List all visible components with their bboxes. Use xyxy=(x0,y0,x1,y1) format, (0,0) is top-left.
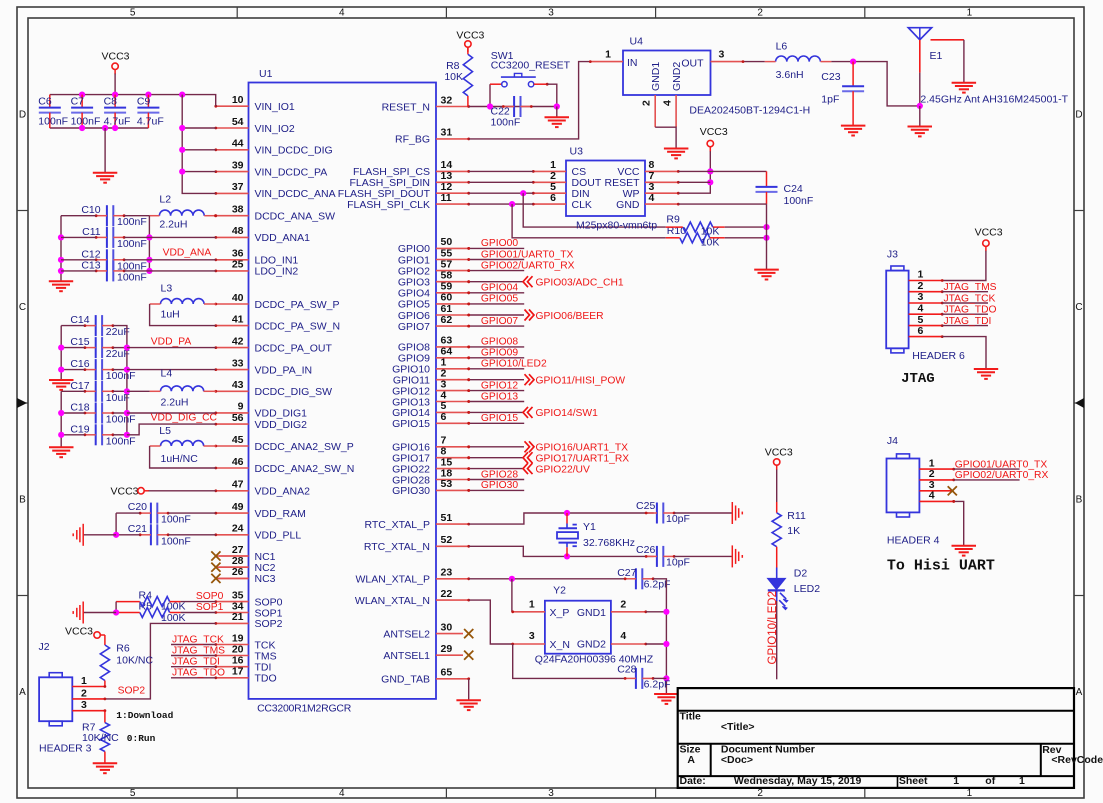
svg-text:R11: R11 xyxy=(787,510,806,522)
svg-text:Title: Title xyxy=(680,711,702,723)
svg-text:3: 3 xyxy=(719,49,725,61)
svg-text:SOP2: SOP2 xyxy=(255,618,283,630)
svg-text:2.45GHz Ant AH316M245001-T: 2.45GHz Ant AH316M245001-T xyxy=(920,94,1068,106)
svg-text:SOP1: SOP1 xyxy=(196,602,224,613)
svg-text:GND1: GND1 xyxy=(650,62,662,91)
svg-text:22: 22 xyxy=(441,588,453,600)
svg-text:GPIO30: GPIO30 xyxy=(392,485,430,497)
svg-text:GPIO7: GPIO7 xyxy=(398,321,430,333)
svg-text:42: 42 xyxy=(232,335,244,347)
svg-text:C18: C18 xyxy=(70,402,89,414)
svg-text:VIN_DCDC_PA: VIN_DCDC_PA xyxy=(255,166,328,178)
svg-text:VCC3: VCC3 xyxy=(975,226,1003,238)
svg-text:VIN_IO1: VIN_IO1 xyxy=(255,101,295,113)
svg-text:LED2: LED2 xyxy=(794,583,820,595)
svg-text:C24: C24 xyxy=(784,183,803,195)
svg-text:1uH/NC: 1uH/NC xyxy=(161,453,199,465)
svg-text:4: 4 xyxy=(649,192,655,204)
svg-text:DCDC_PA_SW_P: DCDC_PA_SW_P xyxy=(255,299,340,311)
svg-text:GPIO03/ADC_CH1: GPIO03/ADC_CH1 xyxy=(536,278,624,289)
svg-text:CC3200R1M2RGCR: CC3200R1M2RGCR xyxy=(257,703,352,715)
svg-text:GPIO02/UART0_RX: GPIO02/UART0_RX xyxy=(955,470,1049,481)
svg-text:TDO: TDO xyxy=(255,673,277,685)
svg-text:1pF: 1pF xyxy=(821,94,839,106)
svg-text:3: 3 xyxy=(918,291,924,303)
svg-text:C14: C14 xyxy=(70,314,89,326)
svg-text:DCDC_ANA2_SW_N: DCDC_ANA2_SW_N xyxy=(255,463,355,475)
svg-text:0:Run: 0:Run xyxy=(127,733,156,744)
svg-text:100nF: 100nF xyxy=(106,435,136,447)
svg-text:4: 4 xyxy=(339,8,345,19)
svg-text:DCDC_ANA2_SW_P: DCDC_ANA2_SW_P xyxy=(255,441,354,453)
svg-text:10pF: 10pF xyxy=(666,513,690,525)
svg-text:VDD_PLL: VDD_PLL xyxy=(255,530,302,542)
svg-text:CC3200_RESET: CC3200_RESET xyxy=(491,60,571,72)
svg-text:A: A xyxy=(687,754,695,766)
svg-text:1:Download: 1:Download xyxy=(116,710,173,721)
svg-text:C25: C25 xyxy=(636,500,655,512)
svg-text:100nF: 100nF xyxy=(117,271,147,283)
svg-text:2: 2 xyxy=(757,8,763,19)
svg-text:JTAG_TDI: JTAG_TDI xyxy=(944,316,992,327)
svg-text:30: 30 xyxy=(441,621,453,633)
svg-text:IN: IN xyxy=(627,57,638,69)
svg-text:JTAG_TCK: JTAG_TCK xyxy=(944,294,996,305)
svg-text:GPIO00: GPIO00 xyxy=(481,238,518,249)
svg-text:VCC3: VCC3 xyxy=(65,626,93,638)
svg-text:32: 32 xyxy=(441,94,453,106)
svg-text:M25px80-vmn6tp: M25px80-vmn6tp xyxy=(576,220,657,232)
svg-text:GPIO28: GPIO28 xyxy=(481,469,518,480)
svg-text:100nF: 100nF xyxy=(784,195,814,207)
svg-text:VDD_RAM: VDD_RAM xyxy=(255,508,306,520)
svg-text:WLAN_XTAL_P: WLAN_XTAL_P xyxy=(356,574,431,586)
svg-text:L3: L3 xyxy=(161,283,173,295)
svg-text:25: 25 xyxy=(232,259,244,271)
svg-text:DCDC_PA_OUT: DCDC_PA_OUT xyxy=(255,342,333,354)
svg-text:C17: C17 xyxy=(70,380,89,392)
svg-text:C10: C10 xyxy=(81,204,100,216)
svg-text:37: 37 xyxy=(232,181,244,193)
svg-text:VDD_ANA2: VDD_ANA2 xyxy=(255,486,311,498)
svg-text:X_N: X_N xyxy=(550,639,570,651)
svg-text:2: 2 xyxy=(620,599,626,611)
svg-text:3: 3 xyxy=(529,630,535,642)
svg-text:J3: J3 xyxy=(887,248,898,260)
svg-text:56: 56 xyxy=(232,412,244,424)
svg-text:39: 39 xyxy=(232,159,244,171)
svg-text:4: 4 xyxy=(339,788,345,799)
svg-text:LDO_IN2: LDO_IN2 xyxy=(255,266,299,278)
svg-text:NC3: NC3 xyxy=(255,573,276,585)
svg-text:R6: R6 xyxy=(116,643,130,655)
svg-text:10: 10 xyxy=(232,94,244,106)
svg-text:5: 5 xyxy=(130,788,136,799)
svg-text:100nF: 100nF xyxy=(71,116,101,128)
svg-text:<Title>: <Title> xyxy=(721,721,755,733)
svg-text:10K: 10K xyxy=(701,237,720,249)
svg-text:JTAG_TDI: JTAG_TDI xyxy=(172,657,220,668)
svg-text:GPIO10/LED2: GPIO10/LED2 xyxy=(481,359,547,370)
svg-text:VDD_ANA: VDD_ANA xyxy=(163,248,212,259)
svg-text:DCDC_ANA_SW: DCDC_ANA_SW xyxy=(255,211,336,223)
svg-text:VIN_DCDC_DIG: VIN_DCDC_DIG xyxy=(255,145,333,157)
svg-text:51: 51 xyxy=(441,512,453,524)
svg-text:U1: U1 xyxy=(259,68,273,80)
svg-text:GND_TAB: GND_TAB xyxy=(381,674,430,686)
svg-text:JTAG_TDO: JTAG_TDO xyxy=(172,668,225,679)
svg-text:B: B xyxy=(19,495,26,506)
svg-text:GPIO15: GPIO15 xyxy=(481,413,518,424)
svg-text:C27: C27 xyxy=(617,567,636,579)
svg-text:GPIO07: GPIO07 xyxy=(481,316,518,327)
svg-text:17: 17 xyxy=(232,666,244,678)
svg-text:VCC3: VCC3 xyxy=(102,51,130,63)
svg-text:<Doc>: <Doc> xyxy=(721,754,753,766)
svg-text:100nF: 100nF xyxy=(161,514,191,526)
svg-text:4: 4 xyxy=(929,490,935,502)
svg-text:C28: C28 xyxy=(617,664,636,676)
svg-text:VDD_PA: VDD_PA xyxy=(151,337,192,348)
svg-text:46: 46 xyxy=(232,456,244,468)
svg-text:44: 44 xyxy=(232,138,244,150)
svg-text:VDD_DIG_CC: VDD_DIG_CC xyxy=(151,413,218,424)
svg-text:GPIO01/UART0_TX: GPIO01/UART0_TX xyxy=(955,459,1048,470)
svg-text:100nF: 100nF xyxy=(117,216,147,228)
svg-text:32.768KHz: 32.768KHz xyxy=(583,537,635,549)
svg-text:VCC3: VCC3 xyxy=(111,485,139,497)
svg-text:100nF: 100nF xyxy=(106,370,136,382)
svg-text:GPIO02/UART0_RX: GPIO02/UART0_RX xyxy=(481,260,575,271)
svg-text:53: 53 xyxy=(441,478,453,490)
svg-text:40: 40 xyxy=(232,292,244,304)
svg-text:6: 6 xyxy=(441,411,447,423)
svg-text:B: B xyxy=(1076,495,1083,506)
svg-text:GPIO11/HISI_POW: GPIO11/HISI_POW xyxy=(536,376,626,387)
svg-text:52: 52 xyxy=(441,534,453,546)
svg-text:1: 1 xyxy=(529,599,535,611)
svg-text:GPIO01/UART0_TX: GPIO01/UART0_TX xyxy=(481,249,574,260)
svg-text:L2: L2 xyxy=(159,194,171,206)
svg-text:23: 23 xyxy=(441,567,453,579)
svg-text:43: 43 xyxy=(232,379,244,391)
svg-text:100nF: 100nF xyxy=(106,414,136,426)
svg-text:C8: C8 xyxy=(104,96,118,108)
svg-text:JTAG_TDO: JTAG_TDO xyxy=(944,305,997,316)
svg-text:GPIO22/UV: GPIO22/UV xyxy=(536,464,590,475)
svg-text:C21: C21 xyxy=(128,523,147,535)
svg-text:VIN_IO2: VIN_IO2 xyxy=(255,123,295,135)
svg-text:RESET_N: RESET_N xyxy=(382,101,430,113)
svg-text:Wednesday, May 15, 2019: Wednesday, May 15, 2019 xyxy=(734,775,862,787)
svg-text:100nF: 100nF xyxy=(38,116,68,128)
svg-text:33: 33 xyxy=(232,357,244,369)
svg-text:NC2: NC2 xyxy=(255,562,276,574)
svg-text:1: 1 xyxy=(918,269,924,281)
svg-text:27: 27 xyxy=(232,544,244,556)
svg-text:62: 62 xyxy=(441,314,453,326)
svg-text:VIN_DCDC_ANA: VIN_DCDC_ANA xyxy=(255,188,336,200)
svg-text:GPIO13: GPIO13 xyxy=(481,391,518,402)
svg-text:GPIO06/BEER: GPIO06/BEER xyxy=(536,311,604,322)
svg-text:C6: C6 xyxy=(38,96,52,108)
svg-text:of: of xyxy=(985,775,995,787)
svg-text:U3: U3 xyxy=(570,146,584,158)
svg-text:L5: L5 xyxy=(159,425,171,437)
svg-text:4: 4 xyxy=(620,630,626,642)
svg-text:3: 3 xyxy=(81,699,87,711)
svg-text:D: D xyxy=(19,110,26,121)
svg-text:ANTSEL1: ANTSEL1 xyxy=(383,650,430,662)
svg-text:1uH: 1uH xyxy=(161,309,180,321)
svg-text:Y2: Y2 xyxy=(553,584,566,596)
svg-text:C9: C9 xyxy=(137,96,151,108)
svg-text:6: 6 xyxy=(918,325,924,337)
svg-text:45: 45 xyxy=(232,434,244,446)
svg-text:C15: C15 xyxy=(70,336,89,348)
svg-text:21: 21 xyxy=(232,611,244,623)
svg-text:1: 1 xyxy=(967,8,973,19)
svg-text:JTAG_TMS: JTAG_TMS xyxy=(944,282,997,293)
svg-text:24: 24 xyxy=(232,523,244,535)
svg-text:GPIO08: GPIO08 xyxy=(481,337,518,348)
svg-text:SOP0: SOP0 xyxy=(196,591,224,602)
svg-text:J4: J4 xyxy=(887,435,898,447)
svg-text:X_P: X_P xyxy=(550,607,570,619)
svg-text:GND2: GND2 xyxy=(671,62,683,91)
svg-text:U4: U4 xyxy=(630,36,644,48)
svg-text:L6: L6 xyxy=(776,41,788,53)
svg-text:ANTSEL2: ANTSEL2 xyxy=(383,628,430,640)
svg-text:100nF: 100nF xyxy=(161,535,191,547)
svg-text:JTAG_TMS: JTAG_TMS xyxy=(172,645,225,656)
svg-text:GPIO15: GPIO15 xyxy=(392,418,430,430)
svg-text:3: 3 xyxy=(548,8,554,19)
svg-text:DEA202450BT-1294C1-H: DEA202450BT-1294C1-H xyxy=(689,104,810,116)
svg-text:VDD_ANA1: VDD_ANA1 xyxy=(255,232,311,244)
svg-text:Sheet: Sheet xyxy=(899,775,928,787)
svg-text:GPIO04: GPIO04 xyxy=(481,283,518,294)
svg-text:RTC_XTAL_P: RTC_XTAL_P xyxy=(364,519,430,531)
svg-text:49: 49 xyxy=(232,501,244,513)
svg-text:VDD_DIG2: VDD_DIG2 xyxy=(255,419,308,431)
svg-text:C16: C16 xyxy=(70,358,89,370)
svg-text:J2: J2 xyxy=(39,641,50,653)
svg-text:3.6nH: 3.6nH xyxy=(776,69,804,81)
svg-text:20: 20 xyxy=(232,643,244,655)
svg-text:GPIO14/SW1: GPIO14/SW1 xyxy=(536,408,599,419)
svg-text:VDD_PA_IN: VDD_PA_IN xyxy=(255,364,313,376)
svg-text:SOP2: SOP2 xyxy=(118,685,146,696)
svg-text:2: 2 xyxy=(81,687,87,699)
svg-text:To Hisi UART: To Hisi UART xyxy=(887,558,995,575)
svg-text:22uF: 22uF xyxy=(106,326,130,338)
svg-text:29: 29 xyxy=(441,643,453,655)
svg-text:C26: C26 xyxy=(636,544,655,556)
svg-text:2.2uH: 2.2uH xyxy=(161,397,189,409)
svg-text:C11: C11 xyxy=(82,226,101,238)
svg-text:VDD_DIG1: VDD_DIG1 xyxy=(255,408,308,420)
svg-text:C23: C23 xyxy=(821,71,840,83)
svg-text:WLAN_XTAL_N: WLAN_XTAL_N xyxy=(355,595,430,607)
svg-text:2: 2 xyxy=(641,100,653,106)
svg-text:GPIO17/UART1_RX: GPIO17/UART1_RX xyxy=(536,454,630,465)
svg-text:1: 1 xyxy=(605,49,611,61)
svg-text:GPIO10/LED2: GPIO10/LED2 xyxy=(767,591,779,665)
svg-text:C13: C13 xyxy=(81,259,100,271)
svg-text:Date:: Date: xyxy=(680,775,706,787)
svg-text:CLK: CLK xyxy=(572,199,592,211)
svg-text:JTAG_TCK: JTAG_TCK xyxy=(172,634,224,645)
svg-text:C20: C20 xyxy=(128,501,147,513)
svg-text:TMS: TMS xyxy=(255,650,277,662)
svg-text:2: 2 xyxy=(757,788,763,799)
svg-text:C7: C7 xyxy=(71,96,85,108)
svg-text:1K: 1K xyxy=(787,525,800,537)
svg-text:47: 47 xyxy=(232,479,244,491)
svg-text:GPIO09: GPIO09 xyxy=(481,348,518,359)
svg-text:VCC3: VCC3 xyxy=(765,447,793,459)
svg-text:C: C xyxy=(1075,302,1082,313)
svg-text:6: 6 xyxy=(550,192,556,204)
svg-text:RTC_XTAL_N: RTC_XTAL_N xyxy=(364,541,430,553)
svg-text:FLASH_SPI_CLK: FLASH_SPI_CLK xyxy=(347,199,430,211)
svg-text:D: D xyxy=(1075,110,1082,121)
svg-text:C22: C22 xyxy=(491,105,510,117)
svg-text:A: A xyxy=(19,687,26,698)
svg-text:1: 1 xyxy=(967,788,973,799)
svg-text:<RevCode>: <RevCode> xyxy=(1051,754,1103,766)
svg-text:5: 5 xyxy=(130,8,136,19)
svg-text:Y1: Y1 xyxy=(583,521,596,533)
svg-text:DCDC_PA_SW_N: DCDC_PA_SW_N xyxy=(255,320,341,332)
svg-text:11: 11 xyxy=(441,192,452,204)
svg-text:10K: 10K xyxy=(444,71,463,83)
svg-text:C: C xyxy=(19,302,26,313)
svg-text:48: 48 xyxy=(232,225,244,237)
svg-text:2: 2 xyxy=(918,280,924,292)
svg-text:GPIO16/UART1_TX: GPIO16/UART1_TX xyxy=(536,443,629,454)
svg-text:GND: GND xyxy=(616,199,640,211)
svg-text:VCC3: VCC3 xyxy=(700,126,728,138)
svg-text:HEADER 3: HEADER 3 xyxy=(39,743,92,755)
svg-text:3: 3 xyxy=(548,788,554,799)
svg-text:41: 41 xyxy=(232,313,244,325)
svg-text:HEADER 4: HEADER 4 xyxy=(887,535,940,547)
svg-text:100nF: 100nF xyxy=(117,238,147,250)
svg-text:4.7uF: 4.7uF xyxy=(137,116,164,128)
svg-text:4: 4 xyxy=(662,100,674,106)
svg-text:1: 1 xyxy=(1019,775,1025,787)
svg-text:6.2pF: 6.2pF xyxy=(644,679,671,691)
svg-text:10pF: 10pF xyxy=(666,557,690,569)
svg-text:10K/NC: 10K/NC xyxy=(116,654,153,666)
svg-text:JTAG: JTAG xyxy=(901,371,935,387)
svg-text:GND1: GND1 xyxy=(577,607,606,619)
svg-text:65: 65 xyxy=(441,667,453,679)
svg-text:D2: D2 xyxy=(794,568,808,580)
svg-text:GPIO05: GPIO05 xyxy=(481,294,518,305)
svg-text:GND2: GND2 xyxy=(577,638,606,650)
svg-text:54: 54 xyxy=(232,116,244,128)
svg-text:38: 38 xyxy=(232,204,244,216)
svg-text:GPIO30: GPIO30 xyxy=(481,480,518,491)
svg-text:L4: L4 xyxy=(161,367,173,379)
svg-text:HEADER 6: HEADER 6 xyxy=(912,350,965,362)
svg-text:GPIO12: GPIO12 xyxy=(481,380,518,391)
svg-text:VCC3: VCC3 xyxy=(456,29,484,41)
svg-text:100nF: 100nF xyxy=(491,117,521,129)
svg-text:31: 31 xyxy=(441,127,453,139)
svg-text:9: 9 xyxy=(238,401,244,413)
svg-text:R9: R9 xyxy=(666,213,680,225)
svg-text:1: 1 xyxy=(81,675,87,687)
svg-text:4: 4 xyxy=(918,302,924,314)
svg-text:OUT: OUT xyxy=(681,57,704,69)
svg-text:2.2uH: 2.2uH xyxy=(159,219,187,231)
svg-text:1: 1 xyxy=(953,775,959,787)
svg-text:NC1: NC1 xyxy=(255,551,276,563)
svg-text:E1: E1 xyxy=(930,50,943,62)
svg-text:A: A xyxy=(1076,687,1083,698)
svg-text:C19: C19 xyxy=(70,423,89,435)
svg-text:RF_BG: RF_BG xyxy=(395,134,430,146)
svg-text:DCDC_DIG_SW: DCDC_DIG_SW xyxy=(255,386,333,398)
